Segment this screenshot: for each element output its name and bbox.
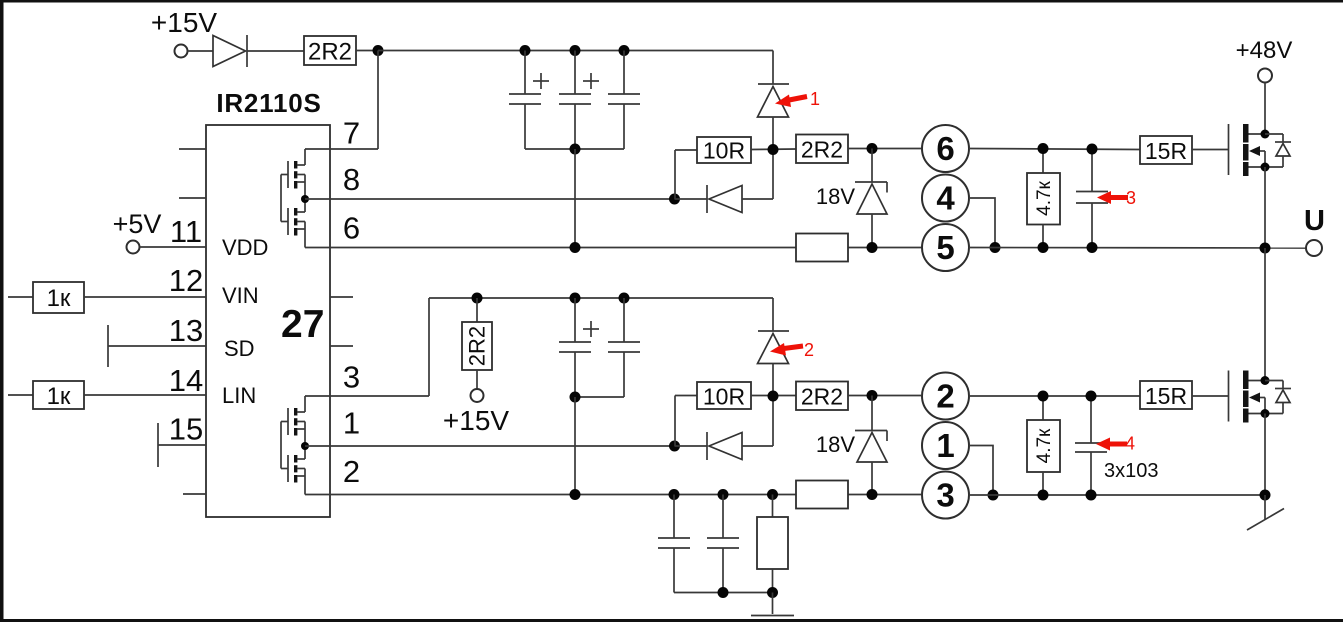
wire 10R right (bottom) <box>751 395 796 397</box>
node drop/COM <box>988 490 999 501</box>
wire connector 1 drop to COM <box>969 446 993 496</box>
node COM end <box>1260 490 1271 501</box>
wire R9 to connector 2 <box>848 395 921 397</box>
resistor R8 10R <box>697 382 751 410</box>
wire top bootstrap rail <box>378 50 773 52</box>
wire node A down to pin 7 <box>377 51 379 150</box>
connector pin 2 <box>922 373 969 420</box>
svg-text:IR2110S: IR2110S <box>216 88 321 118</box>
node C9 bottom <box>1087 242 1098 253</box>
connector pin 6 <box>922 125 969 172</box>
svg-text:1: 1 <box>810 89 820 109</box>
resistor R13 4.7k (bottom) <box>1027 396 1060 495</box>
svg-text:VDD: VDD <box>222 235 268 260</box>
zener Z2 (bottom) <box>855 396 887 495</box>
svg-text:1к: 1к <box>47 383 71 410</box>
red arrow 3 <box>1097 188 1136 208</box>
wire left edge to R2 <box>8 296 33 298</box>
resistor R14 15R (bottom) <box>1140 381 1192 409</box>
wire pin 8 (HO) <box>305 198 675 200</box>
wire Q1 source to output <box>1264 167 1266 248</box>
node 4.7k bottom (bottom half) <box>1038 490 1049 501</box>
svg-text:15R: 15R <box>1145 138 1187 164</box>
capacitor C3 (top rail) <box>608 51 640 150</box>
node rail/C1 <box>520 45 531 56</box>
IC U1 inner label 27 <box>281 303 324 346</box>
node zener bottom (bottom half) <box>867 489 878 500</box>
pin 15 terminator bar <box>157 423 159 467</box>
node gate feed (bottom) <box>768 391 779 402</box>
svg-text:3: 3 <box>936 477 954 514</box>
node rail/C2 <box>570 45 581 56</box>
node Q2 drain <box>1261 376 1270 385</box>
op IC U1 IR2110S body <box>206 125 330 517</box>
pin 1 number <box>343 406 360 441</box>
svg-text:LIN: LIN <box>222 383 256 408</box>
+15V supply label (top left) <box>151 7 217 38</box>
node rail/R4 <box>472 293 483 304</box>
+5V terminal <box>127 241 140 254</box>
wire pin 6 (VS) <box>305 247 922 249</box>
IC pin SD label <box>224 336 255 361</box>
resistor R9 2R2 (bottom gate) <box>796 382 848 411</box>
transistor M4 (bottom half driver) <box>281 446 305 495</box>
svg-text:2R2: 2R2 <box>801 384 843 410</box>
svg-text:27: 27 <box>281 303 324 346</box>
wire VS output line <box>969 247 1306 250</box>
node rail/C6 <box>619 293 630 304</box>
wire pin 7 <box>305 148 378 150</box>
svg-text:14: 14 <box>169 363 203 398</box>
diode D5 (series supply diode) <box>213 35 247 67</box>
svg-text:+15V: +15V <box>443 405 509 436</box>
wire ground bus <box>674 592 773 594</box>
svg-text:15R: 15R <box>1145 383 1187 409</box>
svg-text:2R2: 2R2 <box>308 39 352 66</box>
node C9 top <box>1087 144 1098 155</box>
svg-text:+48V: +48V <box>1236 37 1293 64</box>
wire +48V to Q1 drain <box>1264 83 1266 135</box>
zener Z1 (top) <box>855 149 887 248</box>
svg-text:2: 2 <box>936 378 954 415</box>
+15V label (bottom) <box>443 405 509 436</box>
body diode Q1 <box>1265 134 1291 167</box>
red arrow 4 <box>1096 434 1135 454</box>
wire bottom bootstrap rail <box>429 297 773 299</box>
wire terminal to diode D5 <box>188 50 214 52</box>
svg-text:5: 5 <box>936 229 954 266</box>
+48V label <box>1236 37 1293 64</box>
IC pin VIN label <box>222 283 259 308</box>
transistor M1 (top half, high-side driver) <box>281 149 305 199</box>
wire bar to pin 15 <box>158 444 206 446</box>
node zener bottom <box>867 242 878 253</box>
svg-text:11: 11 <box>170 214 202 249</box>
capacitor C2 (electrolytic, top rail) <box>559 51 599 150</box>
pin 15 number <box>169 412 203 447</box>
node ground bus C8 <box>718 587 729 598</box>
svg-text:1: 1 <box>343 406 360 441</box>
node Q1 source <box>1261 163 1270 172</box>
zener Z1 18V label <box>816 184 855 209</box>
resistor R5 10R <box>697 137 751 164</box>
resistor R3 1k <box>33 381 84 410</box>
svg-text:18V: 18V <box>816 432 855 457</box>
svg-text:18V: 18V <box>816 184 855 209</box>
node COM/C7 <box>669 489 680 500</box>
resistor R11 4.7k (top) <box>1027 149 1060 248</box>
resistor R15 (unlabeled, vertical) <box>757 495 788 593</box>
wire cap bottom bus (top) <box>525 148 624 150</box>
node zener top (bottom half) <box>867 390 878 401</box>
svg-text:3: 3 <box>343 360 360 395</box>
svg-text:1к: 1к <box>47 285 71 312</box>
node COM line <box>570 489 581 500</box>
resistor R1 2R2 <box>304 36 356 66</box>
transistor Q1 (high-side power MOSFET) <box>1229 124 1284 176</box>
pin 6 number <box>343 211 360 246</box>
wire left edge to R3 <box>8 394 33 396</box>
svg-text:7: 7 <box>343 116 360 151</box>
node cap bus <box>570 144 581 155</box>
wire bar to pin 13 <box>108 345 206 347</box>
node VS line <box>570 242 581 253</box>
wire cap bus down to VS line <box>574 149 576 248</box>
node zener top <box>867 143 878 154</box>
diode D1 (bootstrap, top) <box>758 51 790 150</box>
diode D2 (anti-parallel, top) <box>675 150 774 214</box>
svg-text:4.7к: 4.7к <box>1034 180 1055 215</box>
pin 11 number <box>170 214 202 249</box>
node Q1 drain <box>1261 130 1270 139</box>
node Q2 source <box>1261 409 1270 418</box>
wire COM line right <box>969 494 1265 496</box>
pin 14 number <box>169 363 203 398</box>
wire cap bottom bus (bottom) <box>575 396 624 398</box>
svg-text:2: 2 <box>804 340 814 360</box>
transistor M2 (top half, low driver of pair) <box>281 199 305 248</box>
IC pin VDD label <box>222 235 268 260</box>
wire connector 6 to 15R <box>969 149 1140 150</box>
node COM/R15 <box>767 489 778 500</box>
capacitor C1 (electrolytic, top rail) <box>509 51 549 150</box>
pin 13 terminator bar <box>107 325 109 367</box>
frame border left <box>0 0 4 622</box>
capacitor C9 (top gate) <box>1076 149 1108 248</box>
capacitor C5 (electrolytic, bottom rail) <box>559 298 599 397</box>
+15V terminal <box>175 45 188 58</box>
U output terminal <box>1306 240 1322 256</box>
transistor M3 (bottom half driver) <box>281 396 305 446</box>
capacitor value label 3x103 <box>1104 460 1159 482</box>
node gate feed (top) <box>768 144 779 155</box>
wire Q2 source to COM <box>1264 414 1266 496</box>
node 4.7k top <box>1038 143 1049 154</box>
pin 2 number <box>343 454 360 489</box>
svg-text:6: 6 <box>343 211 360 246</box>
diode D3 (bootstrap, bottom) <box>758 298 790 396</box>
IC left stub row8 <box>183 493 206 495</box>
resistor R12 15R (top) <box>1140 136 1192 164</box>
node HO/10R tap <box>669 194 680 205</box>
svg-text:13: 13 <box>169 313 203 348</box>
+48V terminal <box>1258 69 1272 83</box>
frame border bottom <box>0 619 1343 622</box>
diode D4 (anti-parallel, bottom) <box>675 396 774 460</box>
connector pin 4 <box>922 175 969 222</box>
pin 8 number <box>343 162 360 197</box>
capacitor C7 (filter) <box>658 495 690 593</box>
pin 7 number <box>343 116 360 151</box>
IC left stub row2 <box>179 197 206 199</box>
+5V label <box>113 209 162 239</box>
driver FET pair gate bus (bottom) <box>280 422 282 469</box>
red arrow 2 <box>770 340 814 360</box>
driver FET pair gate bus (top) <box>280 175 282 222</box>
connector pin 3 <box>922 472 969 519</box>
svg-text:+15V: +15V <box>151 7 217 38</box>
node cap bus bottom <box>570 392 581 403</box>
wire +5V to pin 11 <box>140 246 207 248</box>
wire R1 to node A <box>356 50 378 52</box>
node ground bus R15 <box>767 587 778 598</box>
wire 15R to Q2 gate <box>1192 395 1228 397</box>
svg-text:3: 3 <box>1126 188 1136 208</box>
wire to ground <box>772 593 774 615</box>
node COM/C8 <box>718 489 729 500</box>
node A junction <box>373 45 384 56</box>
node rail/C3 <box>619 45 630 56</box>
node output <box>1260 243 1271 254</box>
wire R2 to pin 12 <box>84 296 206 298</box>
svg-text:U: U <box>1304 205 1325 237</box>
svg-text:2R2: 2R2 <box>465 326 490 366</box>
node C10 bottom <box>1086 490 1097 501</box>
capacitor C8 (filter) <box>707 495 739 593</box>
wire below COM node <box>1264 495 1266 520</box>
svg-text:6: 6 <box>936 130 954 167</box>
red arrow 1 <box>775 89 820 109</box>
resistor R2 1k <box>33 282 84 313</box>
+15V terminal (bottom) <box>471 389 484 402</box>
wire R6 to connector 6 <box>848 148 922 150</box>
resistor R10 (unlabeled, COM line) <box>796 481 848 509</box>
pin 12 number <box>169 263 203 298</box>
ground <box>751 615 794 617</box>
wire connector 4 drop to VS <box>969 198 995 248</box>
svg-text:3x103: 3x103 <box>1104 460 1159 482</box>
svg-text:1: 1 <box>936 427 954 464</box>
transistor Q2 (low-side power MOSFET) <box>1229 371 1284 423</box>
svg-text:8: 8 <box>343 162 360 197</box>
node M1/M2 midpoint <box>301 195 309 203</box>
wire 15R to Q1 gate <box>1192 149 1228 151</box>
pin 13 number <box>169 313 203 348</box>
svg-text:SD: SD <box>224 336 255 361</box>
zener Z2 18V label <box>816 432 855 457</box>
svg-text:4: 4 <box>1125 434 1135 454</box>
svg-text:+5V: +5V <box>113 209 162 239</box>
svg-text:10R: 10R <box>703 138 745 164</box>
node 4.7k bottom <box>1038 242 1049 253</box>
svg-text:VIN: VIN <box>222 283 259 308</box>
svg-text:15: 15 <box>169 412 203 447</box>
svg-text:4: 4 <box>936 180 955 217</box>
wire cap bus down to COM line <box>574 397 576 495</box>
wire pin 3 riser <box>428 298 430 396</box>
wire pin 3 <box>305 395 429 397</box>
node 4.7k top (bottom half) <box>1038 391 1049 402</box>
wire 10R right (top) <box>751 148 796 151</box>
svg-text:2R2: 2R2 <box>801 137 843 163</box>
wire pin 1 (LO) <box>305 445 675 447</box>
resistor R7 (unlabeled, VS line) <box>796 234 848 262</box>
wire output to Q2 drain <box>1264 248 1266 381</box>
wire pin 2 (COM) <box>305 494 921 496</box>
wire R3 to pin 14 <box>84 394 206 396</box>
U output label <box>1304 205 1325 237</box>
body diode Q2 <box>1265 381 1291 414</box>
slash (negative rail continuation) <box>1247 509 1284 531</box>
resistor R6 2R2 (top gate) <box>796 135 848 164</box>
connector pin 1 <box>922 422 969 469</box>
svg-text:4.7к: 4.7к <box>1034 428 1055 463</box>
frame border top <box>0 0 1343 3</box>
svg-text:10R: 10R <box>703 384 745 410</box>
wire D5 to R1 <box>247 50 304 52</box>
IC U1 label IR2110S <box>216 88 321 118</box>
pin 3 number <box>343 360 360 395</box>
wire 10R left leg (bottom) <box>675 396 697 447</box>
IC right stub row4 <box>330 296 353 298</box>
capacitor C10 (bottom gate) <box>1075 396 1107 495</box>
IC left stub row1 <box>179 148 206 150</box>
node drop/VS <box>990 242 1001 253</box>
resistor R4 2R2 (vertical to +15V) <box>462 298 492 389</box>
IC pin LIN label <box>222 383 256 408</box>
node C10 top <box>1086 391 1097 402</box>
node LO/10R tap <box>669 441 680 452</box>
IC right stub row5 <box>330 345 353 347</box>
svg-text:2: 2 <box>343 454 360 489</box>
node rail/C5 <box>570 293 581 304</box>
capacitor C6 (bottom rail) <box>608 298 640 397</box>
wire connector 2 to 15R <box>969 395 1140 397</box>
node M3/M4 midpoint <box>301 442 309 450</box>
wire 10R left leg (top) <box>675 150 697 199</box>
connector pin 5 <box>922 224 969 271</box>
svg-text:12: 12 <box>169 263 203 298</box>
